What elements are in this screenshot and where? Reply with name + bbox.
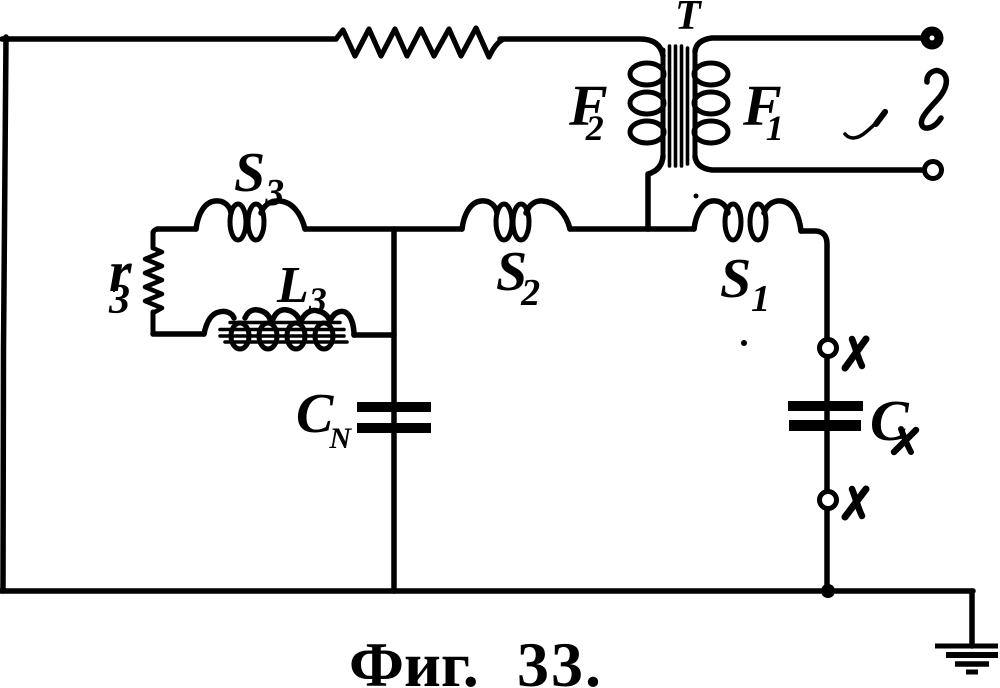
- contact circle X bottom: [820, 492, 837, 509]
- svg-text:S2: S2: [496, 241, 540, 314]
- wire S1 to right corner down: [801, 231, 827, 591]
- wire middle horizontal: S2 to S1: [570, 226, 694, 232]
- speck below S1 label: [741, 340, 747, 346]
- wire secondary top to terminal: [695, 38, 921, 52]
- S3 block left vertical top segment: [153, 229, 159, 234]
- wire middle horizontal: S3 to S2: [305, 226, 462, 232]
- svg-text:F1: F1: [742, 73, 784, 148]
- capacitor CX plates: [788, 401, 863, 431]
- junction dot: [821, 584, 835, 598]
- inductor S1: [694, 201, 728, 229]
- resistor (top, unlabeled): [336, 28, 502, 57]
- node junction at x394 y229 vertical to bottom: [391, 229, 397, 591]
- wire left border vertical: [3, 37, 6, 591]
- terminal bottom right: [925, 162, 942, 179]
- label X bottom: [845, 489, 866, 517]
- inductor S3: [196, 201, 231, 229]
- svg-text:L3: L3: [276, 257, 327, 320]
- curved arrow mark: [845, 111, 886, 138]
- transformer T core laminations: [670, 46, 688, 166]
- wire bottom bus: [1, 588, 973, 594]
- wire resistor to transformer: [500, 39, 663, 56]
- inductor S2: [462, 201, 497, 229]
- wire middle horizontal: S3 block to junction: [157, 226, 196, 232]
- svg-text:CN: CN: [296, 383, 352, 455]
- transformer T primary winding F2: [630, 50, 664, 158]
- label X top: [845, 339, 866, 368]
- terminal top right: [925, 31, 939, 45]
- wire transformer primary bottom lead: [648, 156, 663, 229]
- capacitor CN plates: [357, 402, 431, 433]
- wire r3 bottom to L3: [153, 331, 204, 337]
- svg-text:S1: S1: [720, 248, 770, 320]
- svg-text:F2: F2: [568, 73, 608, 148]
- wire L3 to junction vertical: [354, 332, 394, 338]
- svg-text:3: 3: [108, 277, 130, 323]
- S3 block left vertical bottom segment: [151, 312, 156, 334]
- svg-text:T: T: [675, 0, 703, 39]
- speck near transformer lead: [694, 194, 699, 199]
- wire secondary bottom to terminal: [695, 156, 922, 170]
- wire top horizontal left segment: [2, 36, 336, 42]
- svg-text:33.: 33.: [517, 629, 603, 688]
- transformer T secondary winding F1: [694, 50, 728, 158]
- resistor r3: [145, 248, 162, 313]
- contact circle X top: [820, 340, 837, 357]
- ground symbol: [935, 646, 998, 672]
- inductor L3 winding: [204, 311, 234, 334]
- inductor L3 core lines: [220, 323, 347, 343]
- svg-text:S3: S3: [234, 142, 284, 214]
- svg-text:Фиг.: Фиг.: [349, 629, 479, 688]
- squiggle mark (script 2): [921, 71, 946, 129]
- ground lead: [969, 591, 975, 646]
